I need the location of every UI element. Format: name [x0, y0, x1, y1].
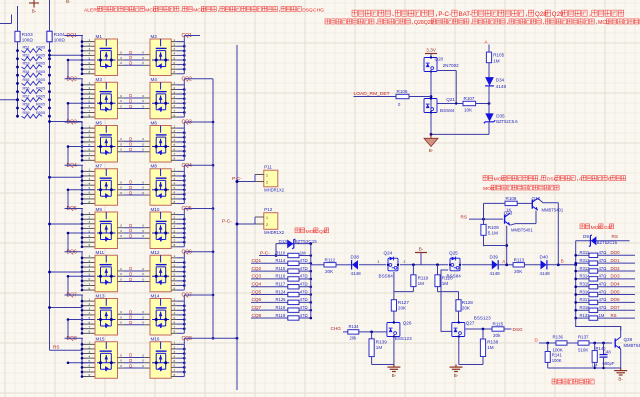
svg-text:D: D	[129, 271, 132, 276]
svg-text:M4: M4	[151, 77, 158, 82]
svg-text:2: 2	[266, 223, 268, 227]
svg-text:0: 0	[142, 104, 144, 108]
svg-text:B-: B-	[419, 247, 424, 253]
svg-text:R127: R127	[398, 300, 409, 305]
svg-text:R134: R134	[349, 324, 360, 329]
svg-text:M8: M8	[151, 164, 158, 169]
svg-text:R005: R005	[36, 86, 45, 90]
svg-text:2: 2	[89, 216, 91, 220]
svg-text:R107: R107	[464, 96, 475, 101]
svg-text:0: 0	[120, 234, 122, 238]
svg-text:CQ3: CQ3	[182, 120, 193, 126]
svg-text:20k: 20k	[493, 333, 501, 338]
svg-text:DQ2: DQ2	[67, 76, 78, 82]
svg-text:7: 7	[174, 195, 176, 199]
svg-text:2: 2	[174, 43, 176, 47]
svg-text:3: 3	[174, 90, 176, 94]
svg-text:10K: 10K	[464, 108, 473, 113]
svg-text:1: 1	[174, 254, 176, 258]
svg-text:47Ω: 47Ω	[599, 282, 607, 287]
svg-text:6: 6	[174, 277, 176, 281]
svg-text:4: 4	[89, 138, 91, 142]
svg-text:1: 1	[89, 297, 91, 301]
svg-text:6: 6	[89, 61, 91, 65]
svg-text:7: 7	[89, 368, 91, 372]
svg-text:0: 0	[120, 353, 122, 357]
svg-text:8: 8	[174, 286, 176, 290]
svg-text:2: 2	[174, 345, 176, 349]
svg-text:47Ω: 47Ω	[599, 258, 607, 263]
svg-text:0: 0	[120, 315, 122, 319]
svg-text:D38: D38	[351, 254, 360, 259]
svg-text:BSS84: BSS84	[447, 273, 462, 278]
svg-text:R114: R114	[276, 258, 286, 263]
svg-text:20K: 20K	[514, 269, 523, 274]
svg-text:1M: 1M	[418, 281, 425, 286]
svg-text:8: 8	[174, 157, 176, 161]
svg-text:1: 1	[266, 216, 268, 220]
svg-text:R118: R118	[276, 305, 286, 310]
svg-text:4: 4	[89, 268, 91, 272]
svg-text:R115: R115	[276, 266, 286, 271]
svg-text:8: 8	[89, 70, 91, 74]
svg-text:4: 4	[174, 354, 176, 358]
svg-text:1M: 1M	[599, 313, 605, 318]
svg-text:0: 0	[142, 359, 144, 363]
svg-text:0: 0	[142, 148, 144, 152]
svg-text:47Ω: 47Ω	[599, 305, 607, 310]
svg-text:D: D	[129, 142, 132, 147]
svg-text:M3: M3	[96, 77, 103, 82]
svg-text:0: 0	[120, 142, 122, 146]
svg-text:2: 2	[174, 86, 176, 90]
svg-text:3: 3	[89, 350, 91, 354]
svg-text:M15: M15	[96, 337, 105, 342]
svg-text:D9: D9	[583, 234, 589, 239]
svg-text:8: 8	[174, 113, 176, 117]
svg-text:A: A	[485, 40, 488, 45]
svg-text:CQ8: CQ8	[252, 313, 262, 318]
svg-text:4: 4	[174, 52, 176, 56]
svg-text:P11: P11	[264, 165, 272, 170]
svg-text:MMBT5401: MMBT5401	[511, 228, 533, 233]
svg-text:B-: B-	[32, 9, 37, 14]
svg-text:7: 7	[89, 239, 91, 243]
svg-text:3: 3	[174, 134, 176, 138]
svg-text:D: D	[129, 104, 132, 109]
svg-text:7: 7	[89, 109, 91, 113]
svg-text:1: 1	[89, 341, 91, 345]
svg-text:D: D	[129, 50, 132, 55]
svg-text:3: 3	[174, 263, 176, 267]
svg-text:1: 1	[174, 168, 176, 172]
svg-text:0: 0	[142, 272, 144, 276]
svg-text:1: 1	[89, 168, 91, 172]
svg-text:R005: R005	[36, 95, 45, 99]
svg-text:0: 0	[120, 272, 122, 276]
svg-text:CHG: CHG	[313, 7, 324, 13]
svg-text:0: 0	[142, 353, 144, 357]
svg-text:100Ω: 100Ω	[22, 38, 34, 43]
svg-text:R53: R53	[23, 62, 30, 66]
svg-text:7: 7	[174, 109, 176, 113]
svg-text:4: 4	[174, 311, 176, 315]
svg-text:0: 0	[142, 137, 144, 141]
svg-text:D: D	[129, 93, 132, 98]
svg-text:DSG: DSG	[513, 327, 524, 332]
svg-text:3: 3	[89, 220, 91, 224]
svg-text:R139: R139	[376, 339, 387, 344]
svg-text:7: 7	[174, 66, 176, 70]
svg-text:M7: M7	[96, 164, 103, 169]
svg-text:CQ7: CQ7	[252, 305, 262, 310]
svg-text:5: 5	[174, 56, 176, 60]
svg-text:6: 6	[174, 147, 176, 151]
svg-text:3: 3	[378, 260, 380, 264]
svg-text:R110: R110	[276, 250, 286, 255]
svg-text:0: 0	[142, 321, 144, 325]
svg-text:2: 2	[89, 86, 91, 90]
svg-text:0: 0	[120, 267, 122, 271]
svg-text:4: 4	[174, 225, 176, 229]
svg-text:R104: R104	[54, 32, 65, 37]
svg-text:100K: 100K	[552, 358, 562, 363]
svg-text:1M: 1M	[300, 250, 306, 255]
svg-text:M16: M16	[151, 337, 160, 342]
svg-text:5.1M: 5.1M	[488, 231, 498, 236]
svg-text:LOAD_RM_DET: LOAD_RM_DET	[354, 91, 390, 97]
svg-text:R005: R005	[36, 103, 45, 107]
svg-text:R136: R136	[553, 334, 564, 339]
svg-text:20K: 20K	[325, 269, 334, 274]
svg-text:Q12: Q12	[532, 196, 541, 201]
svg-text:3: 3	[174, 350, 176, 354]
svg-text:DQ6: DQ6	[67, 249, 78, 255]
svg-text:2: 2	[266, 180, 268, 184]
svg-text:1: 1	[174, 211, 176, 215]
svg-text:3: 3	[89, 307, 91, 311]
svg-text:MCU: MCU	[193, 7, 205, 13]
svg-text:R108: R108	[506, 196, 517, 201]
svg-text:47Ω: 47Ω	[300, 289, 308, 294]
svg-text:5: 5	[174, 229, 176, 233]
svg-text:0: 0	[142, 277, 144, 281]
svg-text:，: ，	[180, 8, 185, 13]
svg-text:0: 0	[142, 61, 144, 65]
svg-text:0: 0	[142, 364, 144, 368]
svg-text:0: 0	[120, 277, 122, 281]
svg-text:5: 5	[174, 273, 176, 277]
svg-text:6: 6	[89, 320, 91, 324]
svg-text:100Ω: 100Ω	[54, 38, 66, 43]
svg-text:R137: R137	[578, 334, 589, 339]
svg-text:P-C-: P-C-	[438, 11, 451, 18]
svg-text:R109: R109	[488, 225, 499, 230]
svg-text:R119: R119	[276, 313, 286, 318]
svg-text:R54: R54	[23, 70, 30, 74]
svg-text:CQ4: CQ4	[252, 282, 262, 287]
svg-text:47Ω: 47Ω	[599, 297, 607, 302]
svg-text:0: 0	[120, 61, 122, 65]
svg-text:47Ω: 47Ω	[599, 274, 607, 279]
svg-text:2: 2	[174, 216, 176, 220]
svg-text:3: 3	[174, 47, 176, 51]
svg-text:510K: 510K	[578, 347, 588, 352]
svg-text:2: 2	[89, 259, 91, 263]
svg-text:7: 7	[174, 239, 176, 243]
svg-text:RS: RS	[461, 214, 467, 219]
svg-text:，: ，	[588, 11, 594, 18]
svg-text:R141: R141	[552, 353, 563, 358]
svg-text:7: 7	[89, 195, 91, 199]
svg-text:R55: R55	[23, 78, 30, 82]
svg-text:D: D	[535, 338, 538, 343]
svg-text:2: 2	[89, 172, 91, 176]
svg-text:R106: R106	[397, 89, 408, 94]
svg-text:7: 7	[174, 325, 176, 329]
svg-text:D: D	[129, 320, 132, 325]
svg-text:D: D	[129, 55, 132, 60]
svg-text:BSS84: BSS84	[440, 108, 455, 113]
svg-text:8: 8	[89, 200, 91, 204]
svg-text:DQ8: DQ8	[67, 336, 78, 342]
svg-text:0: 0	[120, 191, 122, 195]
svg-text:0: 0	[142, 224, 144, 228]
svg-text:CQ6: CQ6	[182, 249, 193, 255]
svg-text:6: 6	[174, 234, 176, 238]
svg-text:680pF: 680pF	[603, 361, 615, 366]
svg-text:2: 2	[404, 260, 406, 264]
svg-text:1: 1	[174, 124, 176, 128]
svg-text:Q24: Q24	[384, 251, 393, 256]
svg-text:R311: R311	[580, 250, 590, 255]
svg-text:0: 0	[120, 310, 122, 314]
svg-text:2: 2	[89, 302, 91, 306]
svg-text:，: ，	[539, 178, 544, 183]
svg-text:M11: M11	[96, 250, 105, 255]
svg-text:5: 5	[174, 100, 176, 104]
svg-text:R005: R005	[36, 54, 45, 58]
svg-text:M5: M5	[96, 120, 103, 125]
svg-text:8: 8	[174, 243, 176, 247]
svg-text:D: D	[129, 228, 132, 233]
svg-text:D: D	[129, 309, 132, 314]
svg-text:0: 0	[142, 99, 144, 103]
svg-text:0: 0	[120, 148, 122, 152]
svg-text:BZT52C15: BZT52C15	[295, 239, 318, 244]
svg-text:M14: M14	[151, 293, 160, 298]
svg-text:0: 0	[142, 234, 144, 238]
svg-text:CHG: CHG	[331, 326, 342, 331]
svg-text:Q25: Q25	[449, 251, 458, 256]
svg-text:CQ5: CQ5	[182, 206, 193, 212]
svg-text:7: 7	[89, 282, 91, 286]
svg-text:8: 8	[89, 373, 91, 377]
svg-text:1: 1	[89, 38, 91, 42]
svg-text:BSS84: BSS84	[379, 273, 394, 278]
svg-text:，: ，	[278, 8, 283, 13]
svg-text:3: 3	[89, 47, 91, 51]
svg-text:0: 0	[120, 56, 122, 60]
svg-text:P12: P12	[264, 207, 273, 212]
svg-text:B-: B-	[392, 373, 397, 378]
svg-text:D40: D40	[540, 254, 549, 259]
svg-text:6: 6	[174, 191, 176, 195]
svg-text:4: 4	[89, 311, 91, 315]
svg-text:CQ6: CQ6	[252, 297, 262, 302]
svg-text:3: 3	[89, 177, 91, 181]
svg-text:1M: 1M	[493, 58, 500, 63]
svg-text:1M: 1M	[376, 345, 383, 350]
svg-text:，: ，	[525, 11, 531, 18]
svg-text:CQ5: CQ5	[252, 289, 262, 294]
svg-text:R115: R115	[493, 322, 504, 327]
svg-text:47Ω: 47Ω	[300, 313, 308, 318]
svg-text:DO3: DO3	[611, 274, 621, 279]
svg-text:8: 8	[89, 243, 91, 247]
svg-text:6: 6	[174, 104, 176, 108]
svg-text:47Ω: 47Ω	[300, 266, 308, 271]
svg-text:0: 0	[142, 142, 144, 146]
svg-text:DQ5: DQ5	[67, 206, 78, 212]
svg-text:CQ1: CQ1	[182, 33, 193, 39]
svg-text:R124: R124	[276, 289, 287, 294]
svg-text:M9: M9	[96, 207, 103, 212]
svg-text:0: 0	[120, 104, 122, 108]
svg-text:7: 7	[89, 325, 91, 329]
svg-text:R57: R57	[23, 95, 30, 99]
svg-text:R56: R56	[23, 86, 30, 90]
svg-text:6: 6	[89, 234, 91, 238]
svg-text:0: 0	[142, 267, 144, 271]
svg-text:P-C-: P-C-	[232, 176, 242, 182]
svg-text:0: 0	[142, 56, 144, 60]
svg-text:CQ4: CQ4	[182, 163, 193, 169]
svg-text:R103: R103	[22, 32, 33, 37]
svg-text:M12: M12	[151, 250, 160, 255]
svg-text:M6: M6	[151, 120, 158, 125]
svg-text:DO0: DO0	[611, 250, 621, 255]
svg-text:R113: R113	[514, 257, 525, 262]
svg-text:D: D	[129, 315, 132, 320]
svg-text:7: 7	[174, 368, 176, 372]
svg-text:DO6: DO6	[611, 297, 621, 302]
svg-text:R116: R116	[276, 274, 286, 279]
svg-text:BSS123: BSS123	[474, 316, 491, 321]
svg-text:47Ω: 47Ω	[300, 282, 308, 287]
svg-text:D: D	[129, 353, 132, 358]
svg-text:M10: M10	[151, 207, 160, 212]
svg-text:R005: R005	[36, 111, 45, 115]
svg-text:0: 0	[120, 94, 122, 98]
svg-text:MMBT5401: MMBT5401	[624, 343, 640, 348]
svg-text:4: 4	[89, 52, 91, 56]
svg-text:DO7: DO7	[611, 305, 621, 310]
svg-text:2: 2	[174, 259, 176, 263]
svg-text:D: D	[129, 185, 132, 190]
svg-text:5: 5	[174, 143, 176, 147]
svg-text:5: 5	[174, 186, 176, 190]
svg-text:3.3V: 3.3V	[426, 48, 437, 54]
svg-text:DO2: DO2	[611, 266, 621, 271]
svg-text:4: 4	[89, 181, 91, 185]
svg-text:3: 3	[89, 263, 91, 267]
svg-text:0: 0	[142, 310, 144, 314]
svg-text:B-: B-	[454, 373, 459, 378]
svg-text:DO4: DO4	[611, 282, 621, 287]
svg-text:1: 1	[89, 124, 91, 128]
svg-text:4148: 4148	[496, 84, 507, 89]
svg-text:B: B	[561, 259, 564, 264]
svg-text:5: 5	[174, 359, 176, 363]
svg-text:47Ω: 47Ω	[300, 297, 308, 302]
svg-text:2N7002: 2N7002	[443, 63, 460, 68]
svg-text:M13: M13	[96, 293, 105, 298]
svg-text:Q28: Q28	[624, 337, 633, 342]
svg-text:1M: 1M	[487, 345, 494, 350]
svg-text:2: 2	[89, 43, 91, 47]
svg-text:6: 6	[174, 364, 176, 368]
svg-text:Q28Q29: Q28Q29	[414, 20, 434, 26]
svg-text:R005: R005	[36, 78, 45, 82]
svg-text:D39: D39	[490, 254, 499, 259]
svg-text:0: 0	[120, 137, 122, 141]
svg-text:7: 7	[174, 152, 176, 156]
svg-text:6: 6	[174, 320, 176, 324]
svg-text:0: 0	[120, 321, 122, 325]
svg-text:8: 8	[174, 373, 176, 377]
svg-text:0: 0	[120, 364, 122, 368]
svg-text:BZT52C5.6: BZT52C5.6	[496, 119, 518, 124]
svg-text:8: 8	[89, 330, 91, 334]
svg-text:R138: R138	[487, 340, 498, 345]
svg-text:20k: 20k	[350, 336, 358, 341]
svg-text:R005: R005	[36, 70, 45, 74]
svg-text:4: 4	[174, 268, 176, 272]
svg-text:CQ7: CQ7	[182, 293, 193, 299]
svg-text:MCU: MCU	[145, 7, 157, 13]
svg-text:RS: RS	[612, 234, 618, 239]
svg-text:Q27: Q27	[466, 321, 475, 326]
svg-text:BZT52C15: BZT52C15	[597, 240, 618, 245]
svg-text:0: 0	[120, 99, 122, 103]
svg-text:B-: B-	[66, 0, 71, 4]
svg-text:1: 1	[174, 81, 176, 85]
svg-text:R119: R119	[418, 275, 429, 280]
svg-text:47Ω: 47Ω	[599, 250, 607, 255]
svg-text:Q29: Q29	[552, 11, 564, 18]
svg-text:DQ3: DQ3	[67, 120, 78, 126]
svg-text:P-C-: P-C-	[260, 250, 270, 255]
svg-text:0: 0	[142, 186, 144, 190]
svg-text:D: D	[129, 61, 132, 66]
svg-text:3: 3	[89, 90, 91, 94]
svg-text:1M: 1M	[442, 281, 449, 286]
svg-text:R52: R52	[23, 54, 30, 58]
svg-text:D: D	[129, 363, 132, 368]
svg-text:8: 8	[174, 200, 176, 204]
svg-text:47Ω: 47Ω	[599, 289, 607, 294]
svg-text:6: 6	[89, 277, 91, 281]
svg-text:0: 0	[120, 359, 122, 363]
svg-text:2: 2	[89, 345, 91, 349]
svg-text:QS: QS	[319, 229, 327, 235]
svg-text:RS: RS	[611, 313, 617, 318]
svg-text:D: D	[129, 234, 132, 239]
svg-text:D: D	[129, 98, 132, 103]
svg-text:R125: R125	[276, 297, 287, 302]
svg-text:Q26: Q26	[403, 321, 412, 326]
